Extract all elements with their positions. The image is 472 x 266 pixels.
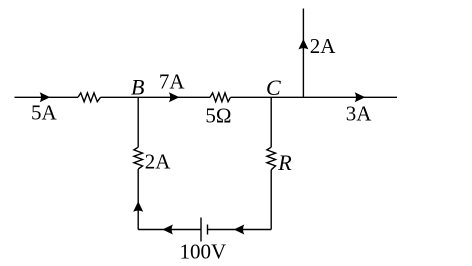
- svg-text:100V: 100V: [180, 240, 227, 264]
- svg-text:5A: 5A: [31, 101, 58, 125]
- svg-text:C: C: [266, 75, 281, 100]
- svg-text:2A: 2A: [310, 34, 337, 58]
- svg-text:3A: 3A: [346, 102, 373, 126]
- svg-text:2A: 2A: [145, 149, 172, 173]
- svg-text:5Ω: 5Ω: [205, 103, 231, 127]
- svg-text:R: R: [277, 150, 292, 175]
- svg-text:7A: 7A: [159, 69, 186, 93]
- svg-text:B: B: [131, 75, 144, 100]
